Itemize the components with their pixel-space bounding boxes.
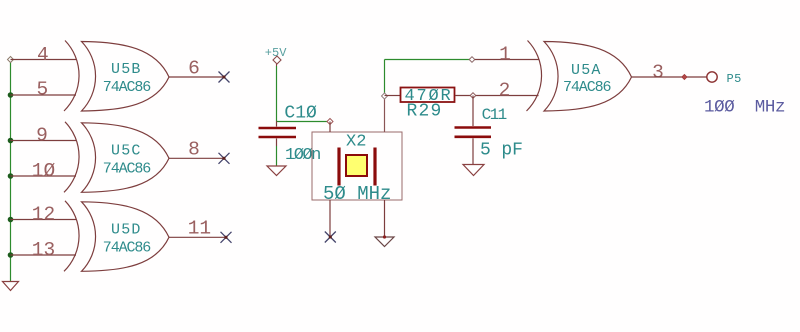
junction (rail pin10) bbox=[8, 173, 14, 179]
svg-text:74AC86: 74AC86 bbox=[103, 160, 152, 177]
xor gate U5A bbox=[527, 41, 632, 112]
node dangling diamond (R29/crystal node) bbox=[382, 93, 388, 99]
wire left input rail bbox=[10, 60, 12, 282]
svg-text:1ØØn: 1ØØn bbox=[285, 146, 320, 165]
svg-text:11: 11 bbox=[188, 218, 211, 240]
svg-text:74AC86: 74AC86 bbox=[563, 79, 612, 96]
pin crystal bottom-right bbox=[384, 200, 386, 237]
wire U5A pin1 net horizontal bbox=[385, 59, 470, 61]
svg-text:4: 4 bbox=[37, 44, 49, 66]
capacitor C10 bbox=[276, 121, 278, 127]
resistor R29 bbox=[385, 95, 401, 97]
no-connect X (crystal) bbox=[325, 232, 336, 243]
node dangling diamond (pin2 node) bbox=[470, 93, 476, 99]
svg-text:12: 12 bbox=[32, 204, 55, 226]
svg-text:13: 13 bbox=[32, 239, 55, 261]
junction (rail pin5) bbox=[8, 92, 14, 98]
ground (C11) bbox=[463, 165, 484, 176]
xor gate U5B bbox=[11, 41, 225, 112]
ground (crystal) bbox=[375, 237, 394, 247]
svg-text:1ØØ MHz: 1ØØ MHz bbox=[704, 98, 785, 118]
svg-text:3: 3 bbox=[652, 62, 664, 84]
svg-text:C1Ø: C1Ø bbox=[284, 104, 317, 124]
svg-text:8: 8 bbox=[188, 139, 200, 161]
ground (C10) bbox=[267, 166, 286, 176]
svg-text:X2: X2 bbox=[346, 133, 366, 152]
svg-text:U5D: U5D bbox=[111, 221, 142, 238]
node dangling diamond (pin1 wire end) bbox=[469, 57, 475, 63]
node dangling diamond (rail top / pin4) bbox=[8, 57, 14, 63]
svg-text:5Ø MHz: 5Ø MHz bbox=[323, 183, 391, 205]
pin crystal top-right bbox=[384, 96, 386, 132]
svg-text:1: 1 bbox=[499, 44, 511, 66]
no-connect X (pin 8) bbox=[219, 153, 230, 164]
svg-text:U5A: U5A bbox=[571, 62, 602, 79]
node dangling diamond (crystal left pin) bbox=[327, 119, 333, 125]
pin U5A pin1 bbox=[475, 59, 539, 61]
svg-text:6: 6 bbox=[188, 58, 200, 80]
junction (rail pin13) bbox=[8, 252, 14, 258]
svg-text:74AC86: 74AC86 bbox=[103, 239, 152, 256]
svg-text:P5: P5 bbox=[727, 72, 742, 86]
node dangling diamond (output net) bbox=[682, 74, 687, 79]
crystal X2 bbox=[312, 132, 402, 200]
svg-text:U5B: U5B bbox=[111, 61, 142, 78]
wire C10 to ground bbox=[276, 146, 278, 166]
svg-text:U5C: U5C bbox=[111, 142, 142, 159]
no-connect X (pin 6) bbox=[219, 72, 230, 83]
pin crystal bottom-left bbox=[329, 200, 331, 237]
svg-text:5 pF: 5 pF bbox=[480, 141, 523, 161]
xor gate U5C bbox=[11, 122, 225, 193]
pin crystal top-left bbox=[329, 122, 331, 133]
connector pin P5 bbox=[707, 72, 717, 82]
svg-text:5: 5 bbox=[36, 79, 48, 101]
svg-text:2: 2 bbox=[499, 80, 511, 102]
svg-text:R29: R29 bbox=[407, 101, 443, 121]
xor gate U5D bbox=[11, 201, 227, 271]
wire +5V to crystal bbox=[277, 121, 331, 123]
wire +5V down bbox=[276, 66, 278, 121]
junction (rail pin9) bbox=[8, 138, 14, 144]
wire U5A output to P5 bbox=[632, 76, 708, 78]
junction (rail pin12) bbox=[8, 217, 14, 223]
svg-text:74AC86: 74AC86 bbox=[103, 79, 152, 96]
svg-text:C11: C11 bbox=[482, 106, 507, 124]
svg-text:9: 9 bbox=[36, 125, 48, 147]
svg-text:1Ø: 1Ø bbox=[32, 160, 56, 182]
wire U5A pin1 net vertical bbox=[384, 60, 386, 97]
no-connect X (pin 11) bbox=[221, 232, 232, 243]
ground (left rail) bbox=[3, 282, 19, 291]
capacitor C11 bbox=[472, 96, 474, 127]
